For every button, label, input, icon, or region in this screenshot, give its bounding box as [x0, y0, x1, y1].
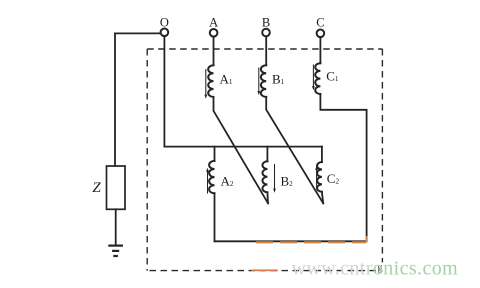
- wire C down: [319, 37, 321, 63]
- winding C2: [317, 162, 322, 192]
- svg-text:A: A: [209, 16, 218, 30]
- wire A1 to B2 (diagonal): [214, 97, 269, 203]
- polarity arrow C2 (up): [315, 166, 318, 188]
- winding B1: [261, 65, 266, 97]
- wire A2 bottom: [214, 193, 216, 241]
- wire left vertical down to Z: [114, 33, 116, 166]
- wire Z to ground: [115, 209, 117, 245]
- wire A2 top: [214, 147, 216, 161]
- wire B2 bottom to V junction: [266, 192, 269, 203]
- winding A2: [209, 161, 214, 193]
- wire C2 top: [321, 147, 323, 162]
- polarity arrow A2 (up): [206, 168, 209, 193]
- wire B1 to C2 (diagonal): [266, 97, 323, 203]
- polarity arrow B2 (down, right side): [273, 165, 276, 193]
- svg-text:C2: C2: [327, 171, 340, 186]
- svg-text:C: C: [316, 16, 324, 30]
- ground: [108, 246, 123, 256]
- svg-text:B2: B2: [281, 174, 294, 189]
- svg-text:B: B: [262, 16, 270, 30]
- dashed enclosure (transformer boundary): [147, 49, 382, 271]
- terminal A: [210, 29, 218, 37]
- svg-text:C1: C1: [326, 69, 339, 84]
- terminal B: [262, 29, 270, 37]
- wire A down: [213, 37, 215, 66]
- wire C2 bottom to V junction: [322, 192, 323, 204]
- wire B2 top: [266, 147, 268, 162]
- wire O to Z branch (horizontal): [115, 32, 161, 34]
- svg-text:www.cntronics.com: www.cntronics.com: [292, 257, 459, 279]
- winding A1: [208, 65, 213, 97]
- impedance Z: [107, 166, 126, 209]
- wire C1 right and down to bottom bus: [215, 94, 367, 241]
- svg-text:O: O: [160, 16, 169, 30]
- svg-text:A1: A1: [220, 72, 233, 87]
- polarity arrow B1 (down): [257, 68, 260, 95]
- wire O down to neutral bus: [163, 36, 165, 146]
- winding C1: [315, 63, 320, 94]
- wire B down: [265, 37, 267, 66]
- terminal C: [317, 30, 325, 38]
- polarity arrow C1 (down): [312, 65, 315, 90]
- orange dash on enclosure bottom: [252, 269, 277, 271]
- svg-text:Z: Z: [92, 180, 101, 196]
- orange highlight on bottom bus: [256, 236, 367, 242]
- winding B2: [262, 161, 267, 192]
- polarity arrow A1 (down): [204, 70, 207, 99]
- terminal O: [161, 29, 169, 37]
- svg-text:B1: B1: [272, 72, 285, 87]
- wire neutral bus: [164, 146, 322, 148]
- svg-text:A2: A2: [221, 174, 234, 189]
